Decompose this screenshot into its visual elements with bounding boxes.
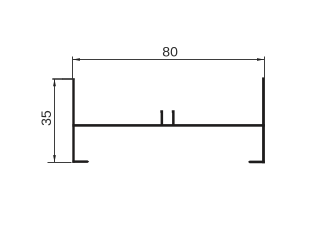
dimension 35: dimension line [54,79,56,162]
profile tab 2 on web [172,110,175,124]
dimension 80: left arrowhead [73,58,80,61]
profile tab 1 on web [160,110,163,124]
profile web [72,124,265,127]
profile left flange top lip [62,78,75,80]
profile right flange bottom foot [248,161,265,164]
dimension 80: extension line right [264,56,266,77]
svg-text:80: 80 [162,44,178,60]
profile right flange vertical [262,77,265,163]
dimension 80: extension line left [72,56,74,78]
profile left flange bottom foot [72,160,89,163]
dimension 80: dimension line [73,59,264,61]
dimension 35: bottom arrowhead [53,155,56,162]
profile left flange vertical [72,78,74,162]
dimension 35: extension line bottom [48,162,72,164]
dimension 80: right arrowhead [257,58,264,61]
dimension 35: extension line top [52,78,62,80]
dimension 35: top arrowhead [53,79,56,86]
svg-text:35: 35 [38,110,54,126]
